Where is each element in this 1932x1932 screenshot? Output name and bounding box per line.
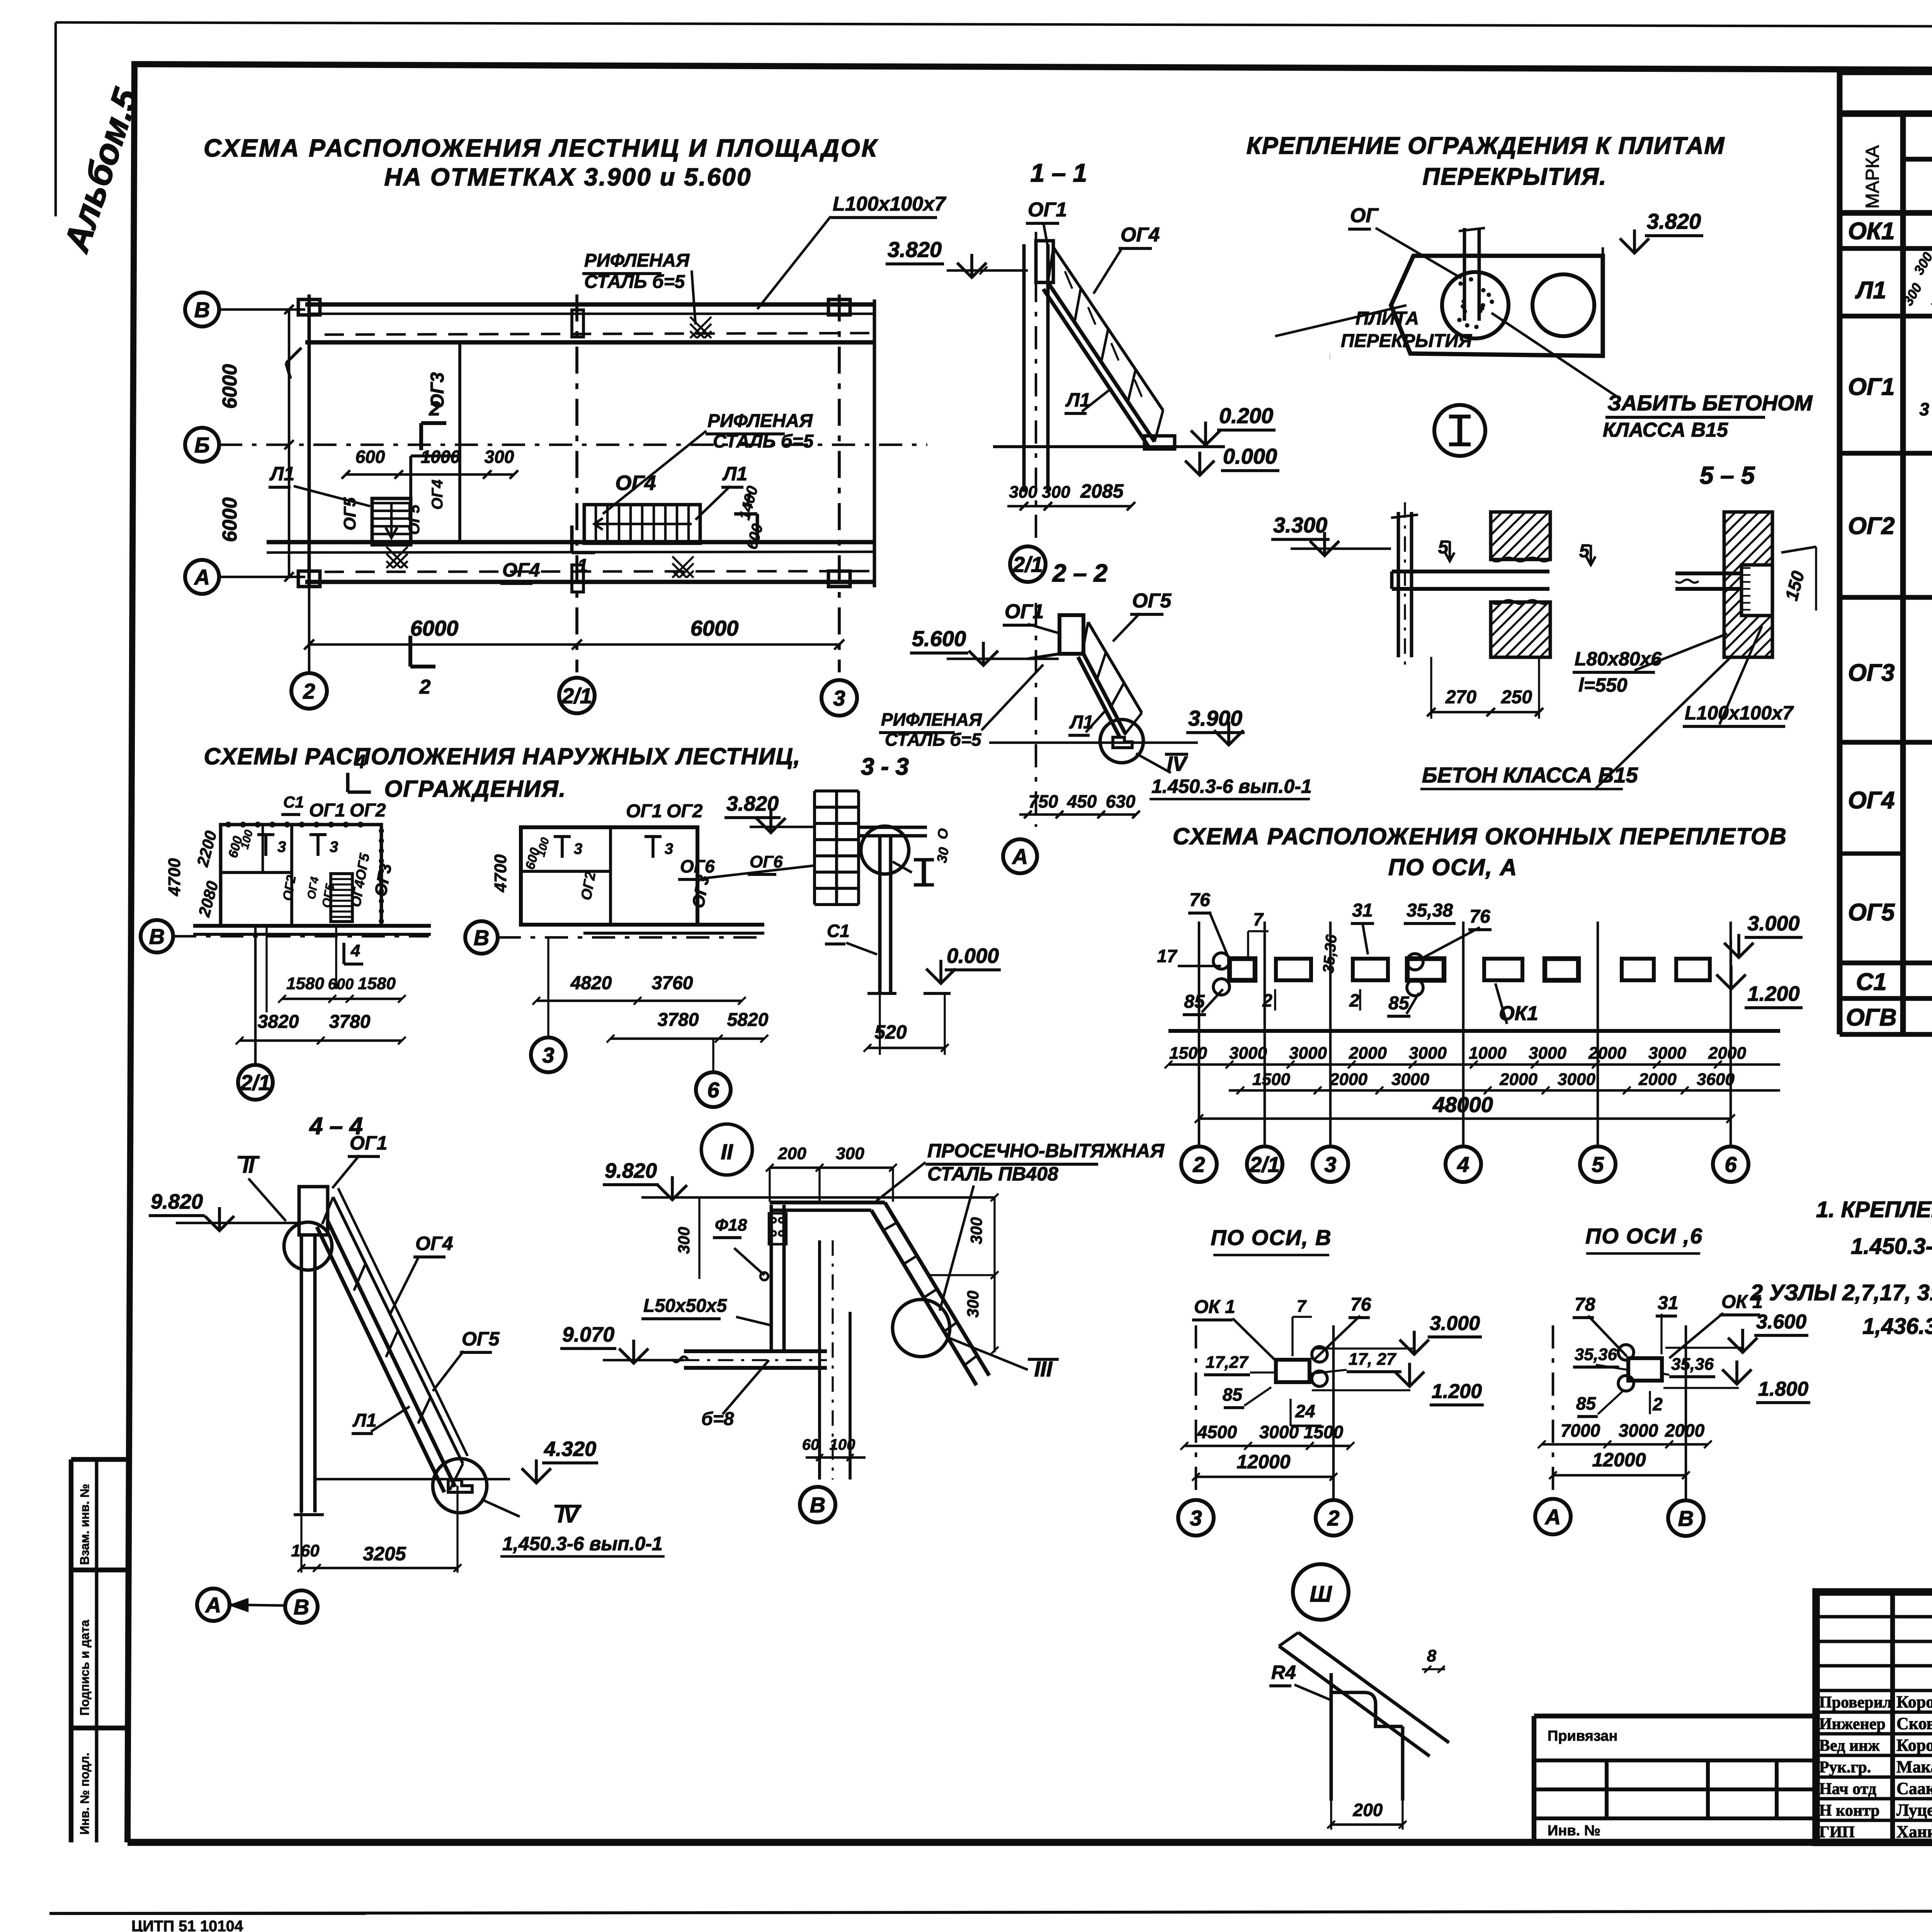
svg-text:31: 31: [1352, 900, 1372, 921]
svg-text:3000: 3000: [1529, 1044, 1566, 1063]
svg-text:2000: 2000: [1638, 1070, 1677, 1089]
svg-text:ОК 1: ОК 1: [1721, 1292, 1763, 1312]
svg-text:ОГ2: ОГ2: [1848, 513, 1895, 539]
svg-text:СХЕМА РАСПОЛОЖЕНИЯ ОКОННЫХ: СХЕМА РАСПОЛОЖЕНИЯ ОКОННЫХ ПЕРЕПЛЕТОВ: [1173, 823, 1787, 849]
svg-text:300: 300: [485, 447, 514, 467]
svg-text:ОГ3: ОГ3: [1848, 660, 1895, 686]
svg-text:3: 3: [665, 840, 673, 857]
svg-text:В: В: [294, 1595, 309, 1619]
svg-text:ЦИТП 51 10104: ЦИТП 51 10104: [131, 1918, 243, 1932]
svg-text:3000: 3000: [1648, 1044, 1686, 1063]
svg-text:СТАЛЬ ПВ408: СТАЛЬ ПВ408: [927, 1163, 1058, 1185]
svg-text:С1: С1: [1856, 969, 1886, 995]
svg-text:РИФЛЕНАЯ: РИФЛЕНАЯ: [881, 709, 982, 730]
svg-text:3: 3: [1324, 1152, 1336, 1177]
svg-text:30: 30: [934, 846, 952, 864]
svg-text:3.000: 3.000: [1430, 1312, 1480, 1335]
svg-text:L80x80x6: L80x80x6: [1575, 648, 1662, 670]
svg-text:3.600: 3.600: [1756, 1311, 1806, 1333]
svg-text:В: В: [810, 1493, 825, 1517]
svg-text:ОГ2: ОГ2: [667, 801, 703, 821]
svg-text:3000: 3000: [1409, 1044, 1447, 1063]
svg-text:2: 2: [1652, 1394, 1663, 1414]
svg-text:РИФЛЕНАЯ: РИФЛЕНАЯ: [707, 411, 813, 431]
svg-text:2000: 2000: [1665, 1420, 1705, 1440]
svg-text:Саакьянц: Саакьянц: [1896, 1779, 1932, 1798]
svg-text:4700: 4700: [491, 854, 510, 893]
svg-text:7: 7: [1297, 1297, 1307, 1316]
svg-text:2/1: 2/1: [1012, 552, 1043, 577]
svg-text:БЕТОН КЛАССА В15: БЕТОН КЛАССА В15: [1422, 763, 1638, 787]
svg-text:L50x50x5: L50x50x5: [643, 1296, 727, 1316]
svg-text:СТАЛЬ б=5: СТАЛЬ б=5: [885, 730, 982, 750]
svg-text:6000: 6000: [690, 616, 739, 640]
svg-text:1580: 1580: [358, 974, 396, 993]
svg-text:Ш: Ш: [1310, 1582, 1332, 1607]
svg-text:160: 160: [291, 1541, 320, 1560]
svg-text:3760: 3760: [652, 973, 693, 993]
svg-text:ОГ1: ОГ1: [350, 1132, 387, 1154]
svg-text:2: 2: [1349, 990, 1359, 1010]
svg-text:2: 2: [1192, 1152, 1205, 1177]
svg-text:0.200: 0.200: [1219, 403, 1273, 428]
svg-text:ОГ4: ОГ4: [1848, 787, 1895, 814]
svg-text:L100x100x7: L100x100x7: [1685, 702, 1794, 724]
svg-text:МАРКА: МАРКА: [1862, 145, 1883, 209]
svg-text:3780: 3780: [329, 1012, 371, 1032]
svg-text:3780: 3780: [658, 1010, 699, 1030]
svg-text:L100x100x7: L100x100x7: [833, 193, 946, 215]
svg-text:3820: 3820: [258, 1012, 299, 1032]
svg-text:270: 270: [1445, 687, 1476, 707]
svg-text:ОГ1: ОГ1: [1848, 374, 1895, 400]
svg-text:3.820: 3.820: [888, 237, 942, 262]
svg-text:Инженер: Инженер: [1819, 1715, 1886, 1733]
svg-text:Л1: Л1: [352, 1410, 377, 1431]
svg-text:Инв. №: Инв. №: [1548, 1823, 1600, 1839]
svg-text:ОГ5: ОГ5: [462, 1328, 500, 1350]
svg-text:4: 4: [350, 941, 360, 960]
svg-text:3.820: 3.820: [1647, 209, 1701, 233]
svg-text:48000: 48000: [1432, 1092, 1493, 1117]
svg-text:А: А: [1544, 1505, 1561, 1529]
svg-text:2/1: 2/1: [561, 684, 592, 708]
svg-text:2000: 2000: [1329, 1070, 1367, 1089]
svg-text:300: 300: [675, 1227, 693, 1254]
svg-text:РИФЛЕНАЯ: РИФЛЕНАЯ: [584, 250, 690, 271]
svg-text:Н контр: Н контр: [1819, 1802, 1880, 1820]
svg-text:2: 2: [303, 679, 315, 703]
svg-text:8: 8: [1427, 1646, 1437, 1665]
svg-text:2: 2: [1262, 990, 1272, 1010]
svg-text:3000: 3000: [1259, 1422, 1299, 1442]
svg-text:4820: 4820: [570, 973, 612, 993]
svg-text:2000: 2000: [1588, 1044, 1626, 1063]
svg-text:85: 85: [1223, 1384, 1243, 1405]
svg-text:А: А: [194, 565, 210, 589]
svg-text:2000: 2000: [1349, 1044, 1387, 1063]
svg-text:100: 100: [830, 1436, 855, 1453]
svg-text:l=550: l=550: [1578, 674, 1628, 696]
svg-text:1500: 1500: [1304, 1422, 1344, 1442]
svg-text:3: 3: [574, 840, 582, 857]
svg-text:750: 750: [1029, 791, 1058, 811]
svg-text:24: 24: [1295, 1401, 1315, 1421]
svg-text:3: 3: [277, 838, 286, 855]
svg-text:1500: 1500: [1169, 1044, 1207, 1063]
svg-text:630: 630: [1106, 791, 1136, 811]
svg-text:76: 76: [1469, 906, 1490, 927]
svg-text:200: 200: [777, 1144, 806, 1163]
svg-text:2: 2: [419, 676, 431, 698]
svg-text:1580: 1580: [286, 974, 324, 993]
svg-text:3000: 3000: [1558, 1070, 1595, 1089]
svg-text:4: 4: [1457, 1152, 1469, 1177]
svg-text:4.320: 4.320: [544, 1437, 596, 1461]
svg-text:3000: 3000: [1619, 1420, 1658, 1440]
svg-text:Проверил: Проверил: [1819, 1694, 1892, 1711]
svg-text:С1: С1: [283, 793, 304, 811]
svg-text:3000: 3000: [1289, 1044, 1327, 1063]
svg-text:КЛАССА В15: КЛАССА В15: [1603, 419, 1728, 441]
svg-text:ОГ1: ОГ1: [309, 800, 345, 821]
svg-text:ОК1: ОК1: [1848, 218, 1895, 245]
svg-text:1,450.3-6 вып.0-1: 1,450.3-6 вып.0-1: [502, 1533, 663, 1554]
svg-text:3: 3: [542, 1043, 554, 1067]
svg-text:ОГ1: ОГ1: [626, 801, 662, 821]
svg-text:17, 27: 17, 27: [1349, 1350, 1397, 1369]
svg-text:12000: 12000: [1592, 1449, 1646, 1471]
svg-text:85: 85: [1388, 993, 1410, 1014]
svg-text:85: 85: [1576, 1393, 1597, 1413]
svg-text:IV: IV: [1167, 752, 1188, 776]
svg-text:Л1: Л1: [269, 463, 294, 485]
svg-text:ПЛИТА: ПЛИТА: [1355, 308, 1419, 329]
svg-text:5 – 5: 5 – 5: [1700, 461, 1755, 489]
svg-text:31: 31: [1658, 1293, 1678, 1313]
svg-text:85: 85: [1184, 992, 1205, 1012]
svg-text:ПРОСЕЧНО-ВЫТЯЖНАЯ: ПРОСЕЧНО-ВЫТЯЖНАЯ: [927, 1140, 1165, 1162]
svg-text:СТАЛЬ б=5: СТАЛЬ б=5: [713, 431, 814, 452]
svg-text:600: 600: [355, 447, 385, 467]
svg-text:ПО ОСИ ,6: ПО ОСИ ,6: [1585, 1224, 1703, 1248]
svg-text:300: 300: [1042, 483, 1070, 502]
svg-text:1. КРЕПЛЕНИЕ ОГРАЖДЕНИЯ ВЫПОЛН: 1. КРЕПЛЕНИЕ ОГРАЖДЕНИЯ ВЫПОЛНЯТЬ ПО СЕР…: [1816, 1197, 1932, 1222]
svg-text:3000: 3000: [1229, 1044, 1267, 1063]
svg-text:5.600: 5.600: [912, 626, 966, 651]
svg-text:ОГ5: ОГ5: [1132, 590, 1172, 612]
svg-text:12000: 12000: [1236, 1451, 1290, 1473]
svg-text:В: В: [474, 925, 489, 950]
svg-text:60: 60: [802, 1436, 820, 1453]
svg-text:250: 250: [1501, 687, 1532, 707]
svg-text:4500: 4500: [1197, 1422, 1237, 1442]
svg-text:3: 3: [1190, 1506, 1202, 1530]
svg-text:ОГ3: ОГ3: [427, 372, 448, 408]
svg-text:Подпись и дата: Подпись и дата: [78, 1620, 92, 1716]
svg-text:9.820: 9.820: [605, 1159, 657, 1182]
svg-text:3000: 3000: [1391, 1070, 1429, 1089]
svg-text:3.300: 3.300: [1273, 513, 1327, 537]
svg-text:7: 7: [1253, 909, 1264, 929]
svg-text:Нач отд: Нач отд: [1819, 1780, 1876, 1798]
svg-text:300: 300: [1009, 483, 1037, 502]
svg-text:6000: 6000: [410, 616, 459, 640]
svg-text:3: 3: [330, 838, 338, 855]
svg-text:ОК 1: ОК 1: [1194, 1297, 1235, 1317]
svg-text:ПО ОСИ, А: ПО ОСИ, А: [1388, 854, 1517, 880]
svg-text:Ханин: Ханин: [1896, 1822, 1932, 1841]
svg-text:5820: 5820: [727, 1010, 769, 1030]
svg-text:ОГ5: ОГ5: [340, 497, 359, 531]
svg-text:ОГ: ОГ: [1350, 204, 1379, 227]
svg-text:2 – 2: 2 – 2: [1052, 559, 1107, 587]
svg-text:ПЕРЕКРЫТИЯ: ПЕРЕКРЫТИЯ: [1341, 331, 1472, 351]
svg-text:Л1: Л1: [722, 463, 747, 485]
svg-text:17: 17: [1157, 946, 1178, 966]
svg-text:78: 78: [1575, 1294, 1595, 1315]
svg-text:2/1: 2/1: [1249, 1152, 1280, 1177]
svg-text:Привязан: Привязан: [1548, 1728, 1617, 1744]
svg-text:ОГ2: ОГ2: [350, 800, 386, 821]
svg-text:0.000: 0.000: [947, 944, 999, 968]
svg-text:ОГ5: ОГ5: [406, 504, 423, 535]
svg-text:3: 3: [833, 686, 845, 710]
svg-text:1.200: 1.200: [1747, 982, 1799, 1005]
svg-text:300: 300: [964, 1291, 982, 1318]
svg-text:35,38: 35,38: [1406, 900, 1453, 921]
svg-text:2085: 2085: [1080, 480, 1124, 502]
svg-text:35,36: 35,36: [1320, 934, 1340, 974]
svg-text:ПО ОСИ, В: ПО ОСИ, В: [1211, 1225, 1332, 1250]
svg-text:ОГ6: ОГ6: [680, 856, 715, 876]
svg-text:1.450.3-6 вып.0-1: 1.450.3-6 вып.0-1: [1151, 776, 1312, 797]
svg-text:9.070: 9.070: [562, 1323, 614, 1346]
svg-text:600: 600: [328, 976, 354, 993]
svg-text:3.000: 3.000: [1747, 912, 1799, 935]
svg-text:ПЕРЕКРЫТИЯ.: ПЕРЕКРЫТИЯ.: [1422, 163, 1607, 190]
svg-text:2000: 2000: [1499, 1070, 1537, 1089]
svg-text:R4: R4: [1271, 1662, 1296, 1683]
svg-text:1000: 1000: [1469, 1044, 1507, 1063]
svg-text:ОГ4: ОГ4: [1121, 224, 1160, 246]
svg-text:76: 76: [1189, 890, 1210, 910]
svg-text:ОГ4: ОГ4: [502, 559, 540, 581]
svg-text:1,436.3-16/88 ВЫПУСК 1.: 1,436.3-16/88 ВЫПУСК 1.: [1862, 1314, 1932, 1339]
svg-text:4700: 4700: [165, 858, 184, 896]
svg-text:С1: С1: [827, 921, 850, 941]
svg-text:9.820: 9.820: [151, 1190, 203, 1213]
svg-text:II: II: [721, 1139, 733, 1164]
svg-text:3600: 3600: [1697, 1070, 1735, 1089]
svg-text:ОГ4: ОГ4: [429, 480, 446, 510]
svg-text:35,36: 35,36: [1575, 1345, 1617, 1364]
svg-text:Л1: Л1: [1855, 277, 1886, 304]
svg-text:ОГ1: ОГ1: [1028, 199, 1067, 221]
svg-text:ЗАБИТЬ БЕТОНОМ: ЗАБИТЬ БЕТОНОМ: [1607, 391, 1813, 415]
svg-text:3205: 3205: [363, 1543, 406, 1565]
svg-text:6: 6: [1725, 1152, 1737, 1177]
svg-text:ОГ5: ОГ5: [1848, 899, 1895, 926]
svg-text:35,36: 35,36: [1671, 1355, 1714, 1374]
svg-text:Макарова: Макарова: [1896, 1757, 1932, 1776]
svg-text:ОГВ: ОГВ: [1846, 1004, 1896, 1031]
svg-text:1: 1: [578, 556, 588, 576]
svg-text:Рук.гр.: Рук.гр.: [1819, 1759, 1871, 1776]
svg-text:СХЕМА РАСПОЛОЖЕНИЯ ЛЕСТНИЦ: СХЕМА РАСПОЛОЖЕНИЯ ЛЕСТНИЦ И ПЛОЩАДОК: [204, 134, 878, 162]
svg-text:3: 3: [1919, 399, 1929, 419]
svg-text:2000: 2000: [1708, 1044, 1746, 1063]
svg-text:76: 76: [1350, 1294, 1371, 1315]
svg-text:Коротенко: Коротенко: [1896, 1736, 1932, 1755]
svg-text:17,27: 17,27: [1206, 1353, 1249, 1372]
svg-text:Ф18: Ф18: [715, 1216, 747, 1235]
svg-text:1 – 1: 1 – 1: [1031, 158, 1087, 187]
svg-text:В: В: [194, 298, 210, 322]
svg-text:200: 200: [1353, 1800, 1383, 1820]
svg-text:3.900: 3.900: [1188, 706, 1242, 730]
svg-text:Луценко: Луценко: [1896, 1801, 1932, 1820]
svg-text:б=8: б=8: [701, 1409, 734, 1429]
svg-text:В: В: [1678, 1506, 1694, 1531]
svg-text:1000: 1000: [421, 447, 461, 467]
svg-text:300: 300: [836, 1144, 864, 1163]
svg-text:Б: Б: [194, 433, 210, 457]
svg-text:Коротенко: Коротенко: [1896, 1692, 1932, 1711]
svg-text:0.000: 0.000: [1223, 444, 1277, 468]
svg-text:А: А: [205, 1593, 221, 1617]
svg-text:3 - 3: 3 - 3: [861, 753, 909, 780]
svg-text:КРЕПЛЕНИЕ ОГРАЖДЕНИЯ К ПЛИ: КРЕПЛЕНИЕ ОГРАЖДЕНИЯ К ПЛИТАМ: [1247, 133, 1725, 159]
svg-text:Инв. № подл.: Инв. № подл.: [78, 1753, 92, 1835]
svg-text:Взам. инв. №: Взам. инв. №: [78, 1484, 92, 1565]
svg-text:4: 4: [354, 751, 366, 772]
svg-text:2/1: 2/1: [240, 1070, 270, 1095]
svg-text:450: 450: [1067, 791, 1097, 811]
svg-text:2: 2: [1327, 1506, 1339, 1530]
svg-text:6000: 6000: [219, 364, 241, 409]
svg-text:ОГ1: ОГ1: [1005, 600, 1044, 623]
svg-text:ОГ4: ОГ4: [415, 1233, 453, 1254]
svg-text:ГИП: ГИП: [1819, 1823, 1855, 1841]
svg-text:СХЕМЫ РАСПОЛОЖЕНИЯ НАРУЖНЫ: СХЕМЫ РАСПОЛОЖЕНИЯ НАРУЖНЫХ ЛЕСТНИЦ,: [204, 743, 801, 769]
svg-text:1.200: 1.200: [1432, 1380, 1482, 1403]
svg-text:2 УЗЛЫ 2,7,17, 31, 35,36, 76: 2 УЗЛЫ 2,7,17, 31, 35,36, 76,85 ВЫПОЛНЯТ…: [1750, 1280, 1932, 1305]
svg-text:7000: 7000: [1561, 1420, 1600, 1440]
svg-text:Сковпень: Сковпень: [1896, 1714, 1932, 1733]
svg-text:В: В: [149, 924, 165, 949]
svg-text:6: 6: [707, 1078, 719, 1102]
svg-text:НА ОТМЕТКАХ 3.900 и 5.600: НА ОТМЕТКАХ 3.900 и 5.600: [384, 163, 752, 191]
svg-text:1.450.3-6 ВЫПУСК 0-1: 1.450.3-6 ВЫПУСК 0-1: [1851, 1234, 1932, 1259]
svg-text:5: 5: [1592, 1152, 1604, 1177]
svg-text:СТАЛЬ б=5: СТАЛЬ б=5: [584, 272, 685, 292]
svg-text:300: 300: [967, 1217, 985, 1244]
svg-text:А: А: [1012, 844, 1028, 869]
svg-text:1500: 1500: [1252, 1070, 1290, 1089]
svg-text:ОГРАЖДЕНИЯ.: ОГРАЖДЕНИЯ.: [384, 776, 566, 802]
svg-text:Вед инж: Вед инж: [1819, 1737, 1880, 1755]
svg-text:6000: 6000: [219, 497, 241, 542]
svg-text:1.800: 1.800: [1758, 1378, 1808, 1400]
